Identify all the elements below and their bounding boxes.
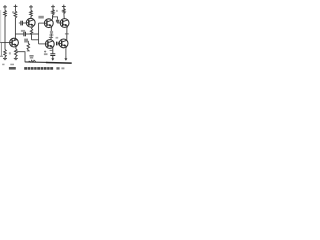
junction tick Q5 emitter (50, 49, 54, 51)
transistor Q1 first top-row stage (26, 18, 35, 27)
wire Q3 emitter down to Q6 collector (67, 26, 68, 40)
wire C1 to Q1 base (23, 22, 27, 24)
ground rail bottom right part (46, 62, 72, 65)
text caption faint mark 1 (2, 64, 4, 65)
plus polarity mark C5 (44, 51, 46, 53)
transistor Q2 driver stage (44, 19, 53, 28)
power supply tick +B R5 (62, 5, 66, 9)
wire Q2 collector riser (51, 15, 53, 20)
ground arrow under C5 (51, 56, 54, 61)
power supply tick +B R3 (29, 5, 33, 9)
wire Q2 collector to C3 (53, 17, 58, 20)
transistor Q4 input stage (10, 38, 19, 47)
text label Sp upper (29, 55, 33, 57)
text caption main row (24, 67, 27, 70)
power supply tick +B R2 (14, 5, 18, 9)
text label node B value (24, 39, 28, 43)
resistor R3 (collector load T1) (30, 9, 33, 18)
resistor R5 (collector load T3) (63, 8, 65, 19)
wire Q2 emitter down to Q5 collector (51, 26, 52, 39)
text label C5 value (44, 53, 48, 55)
resistor R7 (bias lower, base to ground) (4, 43, 7, 59)
text label node C value (50, 31, 53, 34)
text label near Q2 (38, 16, 43, 19)
transistor Q6 output right (59, 39, 68, 48)
text label near R4 (56, 10, 58, 12)
resistor R1 (bias upper) (4, 9, 7, 42)
capacitor C4 (Q6 base) (57, 42, 59, 46)
resistor R8 (Q4 emitter) (15, 46, 18, 58)
terminal bar under R10 (27, 50, 30, 52)
junction tick node C (49, 34, 53, 36)
wire: input down-lead (0, 43, 2, 56)
capacitor C3 (coupling to Q3 base) (56, 20, 59, 22)
resistor R2 (collector load T4) (14, 9, 17, 34)
resistor R9 on ground rail (speaker coil) (29, 60, 36, 62)
wire C4 to Q6 base (57, 42, 60, 44)
ground under R8 (14, 58, 18, 59)
text caption far tail faint (61, 67, 64, 69)
junction tick Q5 collector (49, 36, 53, 38)
wire feedback step to rail (17, 52, 25, 63)
wire: faint left column edge (0, 10, 2, 43)
wire C3 to Q3 base (58, 21, 61, 24)
resistor R10 (node B lower) (27, 41, 30, 51)
wire Q4 collector node to C2 (15, 33, 23, 35)
wire node B to Q5 base (39, 43, 46, 45)
text label near R2 (12, 11, 14, 13)
ground input terminal bar (0, 55, 3, 57)
ground arrow Q6 emitter (64, 56, 67, 61)
text label near C4 (56, 37, 59, 39)
resistor R6 (Q1 emitter) (30, 26, 33, 40)
wire Q6 emitter (65, 47, 68, 49)
ground under R7 (3, 58, 7, 59)
text label near C2 (21, 30, 25, 32)
ground rail bottom left part (25, 61, 48, 64)
text caption fig number (9, 67, 16, 70)
capacitor C5 electrolytic output (plates) (50, 54, 55, 56)
power supply tick +B R1 (3, 5, 7, 9)
text label Sp lower (30, 57, 33, 58)
junction tick node D (65, 33, 69, 35)
transistor Q3 right top stage (60, 19, 69, 28)
capacitor C2 (interstage coupling) (24, 32, 26, 37)
wire node B to Q2 base (39, 22, 45, 24)
wire Q1 emitter to node B (32, 39, 39, 41)
text label near R7 (9, 52, 11, 54)
wire Q5 emitter down (52, 47, 54, 54)
wire into coupling cap C1 (19, 22, 21, 24)
power supply tick +B R4 (51, 5, 55, 9)
resistor R4 (collector load T2) (52, 9, 55, 20)
text caption tail (56, 67, 59, 69)
wire C2 to node B (26, 33, 39, 35)
wire R2 column down to T4 collector (14, 34, 15, 40)
text caption faint mark 2 (10, 64, 14, 65)
transistor Q5 output lower-middle (45, 40, 54, 49)
wire Q6 emitter down (65, 48, 67, 56)
node B vertical bus (38, 23, 40, 44)
capacitor C1 (coupling to Q1 base) (21, 21, 23, 26)
wire input to Q4 base (0, 42, 12, 44)
